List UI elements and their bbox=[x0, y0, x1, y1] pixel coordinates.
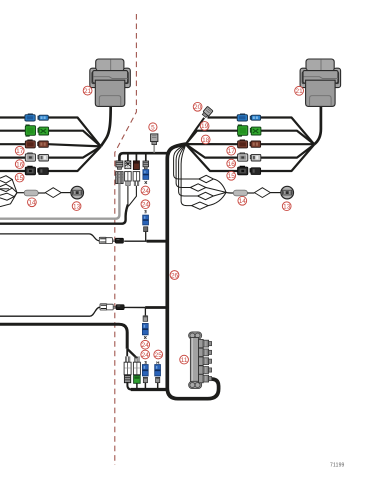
svg-text:16: 16 bbox=[16, 161, 24, 168]
svg-text:21: 21 bbox=[84, 88, 92, 95]
terminal below fuse lower b bbox=[143, 377, 147, 389]
wire bullet to trunk upper bbox=[124, 240, 167, 242]
fuse link upper b bbox=[143, 215, 149, 225]
connector pair black left bbox=[25, 166, 48, 175]
connector male 3 (maroon) bbox=[133, 161, 139, 170]
label 17 left bbox=[15, 146, 24, 155]
label 18 bbox=[201, 135, 210, 144]
connector female 1 (gray) bbox=[116, 172, 123, 184]
wire blue row left half bbox=[0, 118, 101, 147]
svg-text:16: 16 bbox=[228, 161, 236, 168]
label 21 left bbox=[83, 86, 92, 95]
svg-text:24: 24 bbox=[142, 202, 150, 209]
label 24 lower a bbox=[141, 340, 150, 349]
bottom feed bus bbox=[127, 382, 168, 390]
connector male 2 (checkered) bbox=[125, 161, 131, 169]
label 17 right bbox=[227, 146, 236, 155]
svg-text:11: 11 bbox=[181, 357, 188, 364]
svg-text:21: 21 bbox=[296, 88, 304, 95]
connector female 2 (white 2-pin) bbox=[125, 172, 132, 186]
connector pair green left bbox=[25, 125, 48, 136]
wire engine lead upper (to bullet connector) bbox=[0, 234, 99, 241]
svg-text:24: 24 bbox=[142, 352, 150, 359]
svg-text:15: 15 bbox=[228, 173, 236, 180]
wire to noise suppressor right bbox=[247, 192, 254, 194]
svg-text:24: 24 bbox=[142, 188, 150, 195]
wire brown row left half bbox=[0, 144, 101, 146]
mark 3 lower bbox=[145, 361, 147, 364]
stem drop c3 bbox=[135, 153, 137, 161]
fuse link lower a bbox=[142, 324, 148, 335]
bullet connector pair upper bbox=[99, 237, 123, 243]
connector female 3 (white 2-pin) bbox=[133, 172, 140, 186]
component 11 (junction terminal block) bbox=[189, 332, 202, 389]
svg-text:17: 17 bbox=[16, 148, 24, 155]
wire black row right half bbox=[186, 144, 314, 171]
svg-text:71199: 71199 bbox=[330, 463, 345, 469]
connector male 4 (small gray) bbox=[143, 161, 149, 169]
svg-text:25: 25 bbox=[155, 352, 163, 359]
label 15 right bbox=[227, 171, 236, 180]
connector 21 right (coil connector) bbox=[300, 59, 341, 106]
thin wires from white connectors to black lead bbox=[0, 186, 136, 224]
label 21 right bbox=[295, 86, 304, 95]
crossover loop left bbox=[45, 188, 61, 198]
mark x lower bbox=[144, 336, 146, 339]
svg-text:19: 19 bbox=[201, 123, 209, 130]
connector male lower green bbox=[134, 376, 141, 390]
terminal below fuse lower c bbox=[156, 377, 160, 389]
connector pair blue left bbox=[25, 114, 48, 121]
label 15 left bbox=[15, 173, 24, 182]
svg-text:24: 24 bbox=[142, 342, 150, 349]
wire to connector 13 right bbox=[270, 192, 280, 194]
connector pair blue right bbox=[237, 114, 260, 121]
heavy ground lead lower left bbox=[0, 324, 137, 358]
fuse link lower b bbox=[142, 365, 148, 376]
wire green row right half bbox=[186, 131, 314, 145]
connector male 1 (gray) bbox=[116, 161, 123, 169]
wire left coil lead bbox=[101, 103, 111, 146]
label 24 upper b bbox=[141, 200, 150, 209]
connector female lower 2 (white 2-pin) bbox=[133, 356, 140, 374]
wire black row left half bbox=[0, 147, 101, 171]
label 13 left bbox=[72, 202, 81, 211]
connector pair green right bbox=[238, 125, 261, 136]
connector pair brown right bbox=[238, 140, 261, 148]
main harness trunk bbox=[167, 144, 218, 399]
svg-text:14: 14 bbox=[239, 198, 247, 205]
svg-text:18: 18 bbox=[202, 137, 210, 144]
stem drop c2 bbox=[127, 153, 129, 161]
bullet connector pair lower bbox=[100, 304, 124, 310]
gray wire to shield lead bbox=[0, 184, 119, 219]
label 14 right bbox=[238, 196, 247, 205]
label 26 bbox=[170, 271, 179, 280]
label 11 bbox=[180, 355, 189, 364]
fuse link upper a bbox=[143, 170, 149, 180]
label 13 right bbox=[282, 202, 291, 211]
label 24 lower b bbox=[141, 350, 150, 359]
connector pair gray right bbox=[238, 153, 261, 161]
mark x upper a bbox=[145, 181, 147, 184]
branch bus to relay block connectors bbox=[119, 153, 167, 160]
wire to noise suppressor left bbox=[38, 192, 45, 194]
svg-text:13: 13 bbox=[283, 204, 291, 211]
connector 13 right (sensor connector) bbox=[281, 186, 294, 199]
figure number bbox=[330, 463, 345, 469]
connector 21 left (coil connector) bbox=[90, 59, 131, 106]
connector 20 (diagnostic tap) bbox=[201, 106, 213, 118]
svg-text:5: 5 bbox=[151, 124, 155, 131]
wire bullet to trunk lower bbox=[125, 306, 168, 308]
connector 5 (test connector) bbox=[151, 134, 158, 153]
label 24 upper a bbox=[141, 186, 150, 195]
connector pair brown left bbox=[25, 140, 48, 148]
svg-text:15: 15 bbox=[16, 175, 24, 182]
fuse link lower c bbox=[155, 365, 161, 376]
label 14 left bbox=[28, 198, 37, 207]
terminal below fuse upper bbox=[144, 227, 148, 241]
engine/cowl split line (dashed) bbox=[115, 14, 137, 465]
mark 3 upper bbox=[144, 210, 146, 213]
connector pair black right bbox=[238, 166, 261, 175]
crossover loop right bbox=[254, 188, 270, 198]
wire brown row right half bbox=[186, 143, 314, 145]
wire gray row right half bbox=[186, 144, 314, 157]
connector 13 left (sensor connector) bbox=[71, 186, 84, 199]
label 5 bbox=[149, 123, 157, 131]
svg-text:17: 17 bbox=[228, 148, 236, 155]
svg-text:13: 13 bbox=[73, 203, 81, 210]
component 11 terminals bbox=[199, 339, 212, 382]
label 16 right bbox=[227, 159, 236, 168]
connector female lower 1 (white 2-pin) bbox=[124, 356, 131, 374]
label 16 left bbox=[15, 160, 24, 169]
wire to connector 13 left bbox=[61, 192, 70, 194]
wire engine lead lower (to bullet connector) bbox=[0, 307, 100, 316]
label 20 bbox=[193, 102, 202, 111]
inline connector 14 left bbox=[24, 190, 38, 196]
connector pair gray left bbox=[25, 153, 48, 161]
wire gray row left half bbox=[0, 147, 101, 158]
inline connector 14 right bbox=[233, 190, 247, 196]
wire right coil lead bbox=[314, 103, 321, 144]
wire green row left half bbox=[0, 131, 101, 147]
wire blue row right half bbox=[186, 118, 314, 145]
mark H lower bbox=[157, 361, 159, 364]
label 25 bbox=[154, 350, 163, 359]
stem drop c4 bbox=[145, 153, 147, 161]
crossover wires left (injector sub-harness) bbox=[0, 176, 24, 207]
svg-text:14: 14 bbox=[28, 200, 36, 207]
connector male lower gray bbox=[124, 376, 130, 383]
stem to fuse column lower bbox=[143, 308, 148, 322]
svg-text:26: 26 bbox=[171, 272, 179, 279]
label 19 bbox=[200, 122, 209, 131]
crossover wires right (injector sub-harness) bbox=[174, 145, 234, 210]
svg-text:20: 20 bbox=[194, 104, 202, 111]
